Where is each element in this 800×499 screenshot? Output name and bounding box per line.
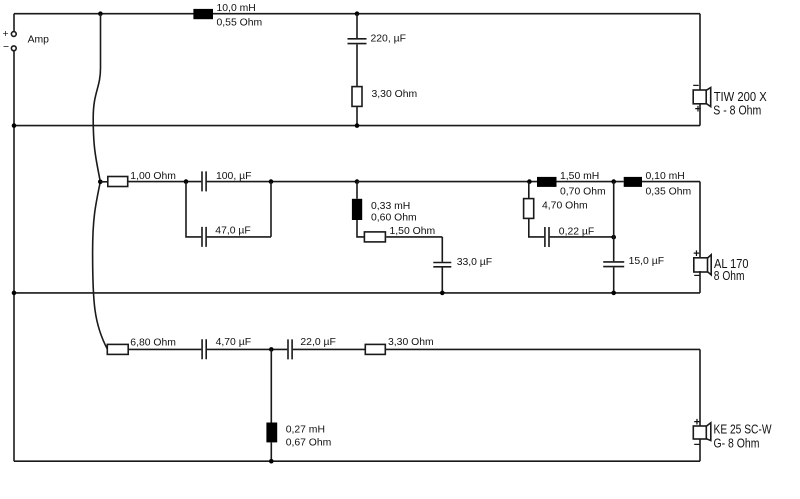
svg-text:Amp: Amp (28, 34, 50, 45)
inductor L4 0,10 mH (624, 171, 691, 197)
capacitor C7 4,70 uF (202, 337, 251, 359)
svg-text:100, µF: 100, µF (216, 171, 251, 182)
speaker KE 25 SC-W (693, 423, 711, 441)
wire C2 to L2 junction (207, 181, 357, 183)
wire C7 to C8 (207, 348, 287, 350)
wire C4 to mid return (441, 268, 443, 293)
resistor R2 1,00 Ohm (108, 171, 176, 187)
svg-text:+: + (693, 248, 699, 260)
wire L3 to L4 (557, 181, 624, 183)
wire L2 top lead (356, 182, 358, 199)
capacitor C4 33,0 uF (433, 257, 492, 268)
svg-text:0,60 Ohm: 0,60 Ohm (371, 212, 417, 223)
svg-text:8 Ohm: 8 Ohm (714, 268, 745, 283)
node top rail to curvy wire (98, 11, 103, 16)
svg-text:0,33 mH: 0,33 mH (371, 201, 410, 212)
svg-text:0,27 mH: 0,27 mH (286, 425, 325, 436)
wire bottom feed R5 to C7 (128, 348, 201, 350)
capacitor C5 0,22 uF (545, 227, 594, 248)
node mid return C4 (440, 291, 445, 296)
wire R2 to C2 (128, 181, 202, 183)
wire TIW drop upper (699, 14, 701, 90)
wire R3 to C4 (386, 237, 442, 262)
capacitor C8 22,0 uF (288, 337, 336, 360)
wire KE drop upper (699, 349, 701, 426)
svg-text:0,10 mH: 0,10 mH (646, 171, 685, 182)
svg-text:+: + (3, 29, 9, 40)
node bottom return L5 (269, 459, 274, 464)
node rail1 left bus (12, 123, 17, 128)
svg-text:0,35 Ohm: 0,35 Ohm (646, 187, 692, 198)
svg-text:33,0 µF: 33,0 µF (457, 257, 492, 268)
speaker TIW label (713, 89, 767, 118)
svg-text:+: + (694, 416, 700, 428)
node C5 x614 (611, 235, 616, 240)
svg-text:−: − (3, 42, 9, 53)
wire mid feed stub (100, 181, 108, 183)
svg-text:0,55 Ohm: 0,55 Ohm (217, 18, 263, 29)
svg-text:−: − (693, 80, 699, 92)
svg-text:1,50 mH: 1,50 mH (560, 171, 599, 182)
capacitor C6 15,0 uF (603, 256, 664, 267)
amp - terminal (3, 42, 16, 53)
wire C3 loop left (186, 182, 201, 237)
svg-text:47,0 µF: 47,0 µF (215, 226, 250, 237)
svg-text:G- 8 Ohm: G- 8 Ohm (714, 436, 760, 451)
svg-text:22,0 µF: 22,0 µF (300, 337, 335, 348)
node mid feed C2 left (184, 179, 189, 184)
svg-text:4,70 µF: 4,70 µF (216, 337, 251, 348)
node mid feed L4 junction (611, 179, 616, 184)
svg-text:KE 25 SC-W: KE 25 SC-W (714, 422, 773, 437)
node bottom feed L5 junction (269, 347, 274, 352)
wire AL drop lower (699, 271, 701, 293)
node mid feed L2 (355, 179, 360, 184)
wire C5 to x614 node (550, 236, 614, 238)
svg-text:S - 8 Ohm: S - 8 Ohm (713, 102, 761, 117)
svg-text:0,70 Ohm: 0,70 Ohm (560, 187, 606, 198)
speaker AL label (714, 256, 749, 283)
speaker TIW minus mark (693, 80, 699, 92)
wire R6 to KE drop (385, 348, 700, 350)
amp label (28, 34, 50, 45)
wire TIW drop lower (699, 103, 701, 125)
speaker TIW 200 X (693, 88, 711, 107)
wire mid return rail (14, 292, 700, 294)
speaker KE label (714, 422, 773, 451)
svg-text:0,22 µF: 0,22 µF (559, 227, 594, 238)
wire C1 to R1 (356, 44, 358, 86)
resistor R4 4,70 Ohm (524, 199, 588, 219)
capacitor C2 100 uF (202, 171, 251, 192)
capacitor C3 47,0 uF (202, 226, 251, 247)
wire return rail 1 (14, 125, 700, 127)
wire L5 to bottom return (270, 442, 272, 461)
svg-text:10,0 mH: 10,0 mH (217, 3, 256, 14)
node mid feed curvy junction (98, 180, 103, 185)
svg-text:1,50 Ohm: 1,50 Ohm (390, 226, 436, 237)
wire C1 top lead (356, 14, 358, 38)
inductor L2 0,33 mH (352, 199, 417, 224)
svg-text:3,30 Ohm: 3,30 Ohm (372, 89, 418, 100)
wire AL drop upper (699, 182, 701, 258)
wire curvy segment 1 (93, 14, 100, 182)
svg-text:0,67 Ohm: 0,67 Ohm (286, 438, 332, 449)
wire bottom return rail (14, 460, 700, 462)
wire L2 to R3 (357, 220, 364, 237)
svg-text:6,80 Ohm: 6,80 Ohm (130, 337, 176, 348)
capacitor C1 220 uF (348, 34, 406, 45)
wire curvy segment 2 (93, 182, 108, 350)
svg-text:15,0 µF: 15,0 µF (629, 256, 664, 267)
wire amp plus to top rail (13, 14, 15, 32)
wire left bus from amp minus down (13, 51, 15, 461)
node mid return C6 (611, 291, 616, 296)
amp + terminal (3, 29, 17, 40)
wire x614 vertical upper (613, 182, 615, 262)
node mid feed C2 right (269, 179, 274, 184)
node mid feed L3 junction (527, 179, 532, 184)
svg-text:220, µF: 220, µF (371, 34, 406, 45)
wire C8 to R6 (293, 348, 366, 350)
resistor R5 6,80 Ohm (107, 337, 176, 354)
speaker AL 170 (694, 255, 711, 275)
wire R1 to rail1 (356, 106, 358, 125)
wire mid feed to L3 (357, 181, 537, 183)
wire top rail (14, 13, 700, 15)
inductor L3 1,50 mH (537, 171, 606, 197)
wire R4 top lead (528, 182, 530, 199)
wire C3 loop right (207, 182, 271, 237)
resistor R1 3,30 Ohm (352, 87, 417, 107)
wire C6 to mid return (613, 267, 615, 293)
resistor R3 1,50 Ohm (364, 226, 435, 242)
speaker KE minus mark (694, 439, 700, 451)
wire KE drop lower (699, 439, 701, 461)
wire L4 to AL drop (642, 181, 700, 183)
speaker AL plus mark (693, 248, 699, 260)
wire R4 to C5 (529, 218, 544, 237)
resistor R6 3,30 Ohm (365, 337, 433, 355)
svg-text:3,30 Ohm: 3,30 Ohm (388, 337, 434, 348)
speaker KE plus mark (694, 416, 700, 428)
speaker TIW plus mark (695, 104, 701, 116)
speaker AL minus mark (694, 270, 700, 282)
inductor L5 0,27 mH (266, 423, 331, 449)
inductor L1 10,0 mH (193, 3, 262, 29)
node rail1 R1 (355, 123, 360, 128)
node top rail to C1 (355, 11, 360, 16)
node mid return left bus (12, 291, 17, 296)
svg-text:1,00 Ohm: 1,00 Ohm (130, 171, 176, 182)
wire L5 top lead (270, 349, 272, 422)
svg-text:4,70 Ohm: 4,70 Ohm (542, 201, 588, 212)
